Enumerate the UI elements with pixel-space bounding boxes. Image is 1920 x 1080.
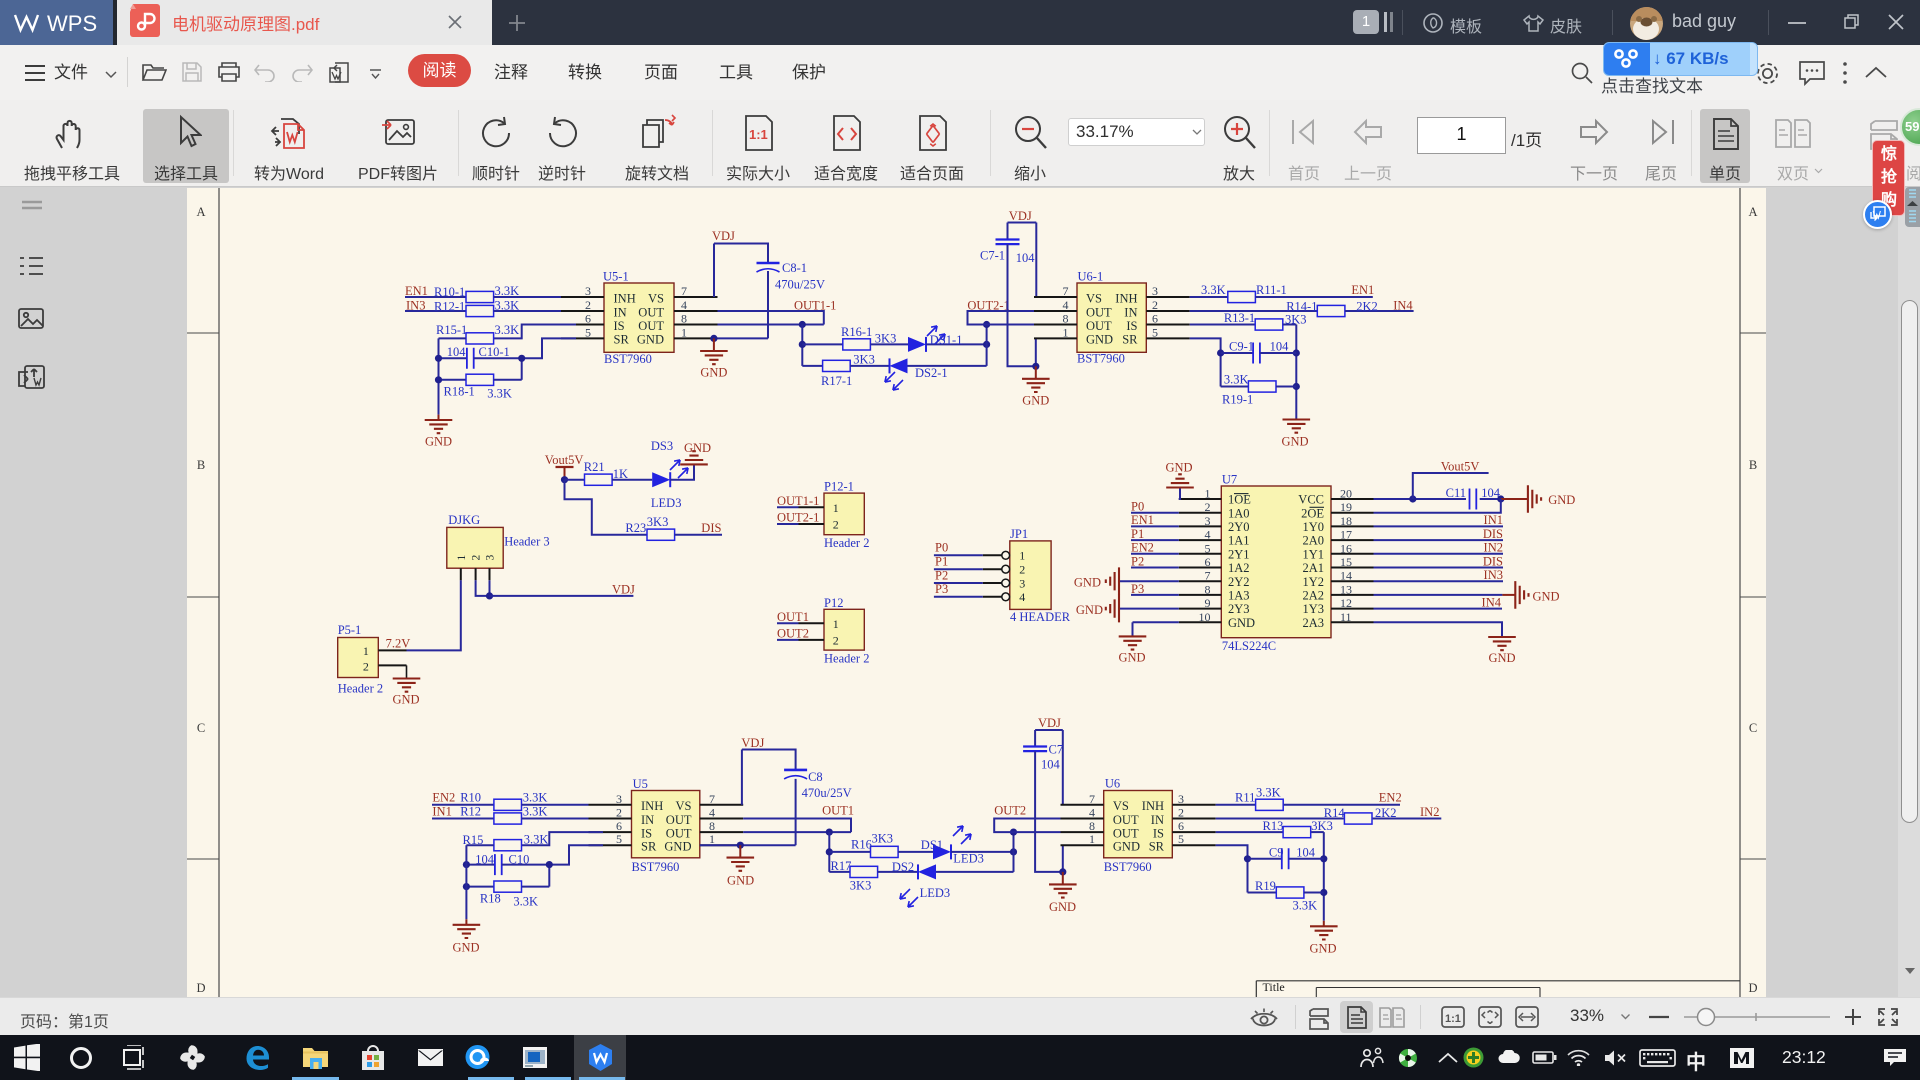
svg-text:WPS: WPS [47, 11, 97, 36]
svg-text:1:1: 1:1 [1445, 1013, 1461, 1025]
svg-text:电机驱动原理图.pdf: 电机驱动原理图.pdf [172, 15, 320, 34]
svg-text:1:1: 1:1 [749, 127, 768, 142]
